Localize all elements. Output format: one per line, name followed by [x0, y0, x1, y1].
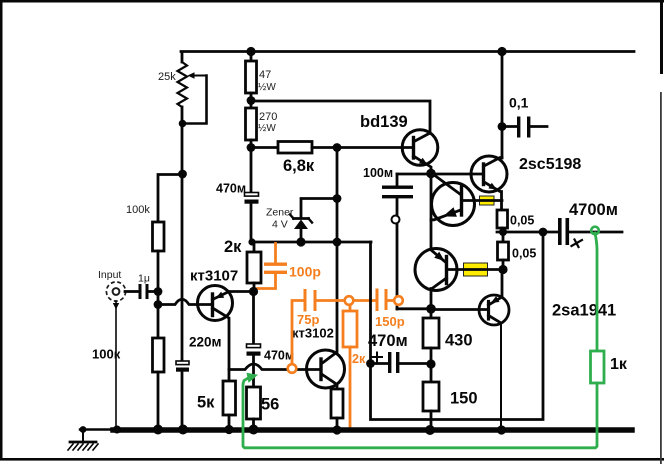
capacitor 470m emitter [247, 292, 295, 388]
svg-text:кт3102: кт3102 [292, 326, 334, 341]
wire green feedback return [243, 373, 597, 448]
node 5k ground [224, 425, 233, 434]
node 150 ground [425, 425, 435, 435]
node orange marker on 100m line [394, 296, 403, 305]
capacitor 100p (orange) [255, 244, 321, 291]
resistor 5k [197, 381, 236, 429]
svg-text:0,1: 0,1 [509, 95, 529, 111]
node 1u / 100k junction [154, 287, 163, 296]
wire collector branch x502 [501, 53, 504, 158]
svg-text:2sc5198: 2sc5198 [519, 156, 581, 173]
node top rail / 47 resistor [246, 47, 255, 56]
svg-text:2к: 2к [352, 352, 366, 366]
resistor 100k lower [92, 338, 164, 429]
svg-text:75p: 75p [297, 312, 319, 327]
wire junction to 100m line [397, 307, 431, 310]
wire ground bus [80, 428, 632, 431]
node kt3102 emitter ground [332, 425, 341, 434]
svg-text:6,8к: 6,8к [283, 157, 315, 175]
potentiometer 25k [158, 52, 207, 124]
wire bias chain vertical [336, 148, 339, 243]
wire top supply rail [181, 50, 634, 53]
svg-text:470м: 470м [216, 182, 246, 196]
svg-text:47: 47 [259, 69, 271, 81]
wire to bd139 collector [251, 101, 430, 141]
capacitor 470m upper [216, 148, 259, 242]
transistor kt3102 [292, 243, 345, 389]
svg-text:150: 150 [450, 390, 478, 408]
svg-text:½W: ½W [258, 123, 276, 134]
node 0,05 / 2sa emitter junction [498, 265, 507, 274]
wire x431 down to driver [430, 174, 433, 249]
capacitor 0,1 [502, 95, 547, 138]
node bias rail / kt3102 collector line [333, 238, 342, 247]
node pot wiper junction [179, 120, 187, 128]
wire base of kt3107 with hop [158, 299, 212, 304]
node 430 / 150 / cap junction [426, 359, 435, 368]
node 47 / 270 junction [247, 96, 256, 105]
node zener anode [296, 237, 305, 246]
svg-text:470м: 470м [368, 332, 408, 350]
resistor 150 [423, 382, 478, 430]
svg-text:кт3107: кт3107 [190, 268, 238, 285]
wire left bias line down [181, 124, 184, 361]
capacitor 1u [125, 273, 158, 300]
resistor 100k upper [126, 175, 182, 293]
svg-text:1μ: 1μ [138, 273, 150, 285]
node 220m ground [178, 425, 188, 435]
node 56 ground [249, 425, 259, 435]
resistor 1k (green) feedback [591, 233, 628, 383]
svg-text:4 V: 4 V [272, 219, 288, 231]
svg-text:0,05: 0,05 [512, 247, 536, 261]
node 100k ground [153, 425, 163, 435]
node 6.8k / bd139 base / bias chain [333, 143, 342, 152]
svg-text:100м: 100м [363, 166, 393, 180]
svg-text:270: 270 [259, 111, 277, 123]
transistor bias (rotated) [430, 172, 475, 226]
svg-text:1к: 1к [610, 356, 628, 373]
node ground stem [80, 426, 87, 433]
svg-text:430: 430 [445, 332, 473, 350]
transistor 2sa1941 [479, 270, 616, 326]
wire output rail [497, 231, 559, 234]
svg-text:100k: 100k [126, 204, 150, 216]
resistor kt3102 emitter [331, 389, 343, 430]
transistor driver pnp [415, 249, 502, 309]
node jack shield ground [113, 426, 121, 434]
svg-text:5к: 5к [197, 394, 215, 412]
wire junction to 2sa1941 base [431, 308, 488, 311]
capacitor 75p (orange) [292, 289, 345, 364]
node base branch junction [154, 292, 163, 338]
svg-text:Zener: Zener [266, 207, 294, 219]
node open circle on 100m line [392, 216, 400, 224]
resistor 6,8k [251, 142, 413, 176]
node top rail / output collector branch [497, 47, 506, 56]
svg-text:56: 56 [261, 396, 279, 414]
resistor 430 [423, 309, 473, 382]
svg-text:2к: 2к [224, 238, 242, 256]
resistor 0,05 lower [498, 232, 537, 269]
transistor 2sc5198 [471, 156, 581, 210]
svg-text:½W: ½W [258, 82, 276, 93]
yellow highlight 1 [480, 196, 495, 205]
resistor 270 1/2W [246, 108, 278, 148]
resistor 2k (orange) [343, 305, 366, 428]
zener diode 4V [266, 199, 337, 243]
svg-text:bd139: bd139 [360, 113, 408, 131]
node bias line / 100k branch [178, 170, 187, 179]
ground symbol [68, 430, 98, 451]
svg-text:100p: 100p [289, 264, 321, 280]
capacitor 100m [363, 166, 413, 309]
node 0,1 branch [498, 122, 507, 131]
transistor bd139 [360, 113, 438, 174]
wire kt3107 collector to kt3102 base with hop [229, 364, 321, 370]
node bias rail left [248, 238, 255, 245]
node orange marker on kt3102 base [288, 364, 297, 373]
node orange junction at 2k top [345, 296, 354, 305]
node 2sa collector ground [497, 425, 506, 434]
capacitor 4700m output [558, 201, 622, 247]
wire jack shield to ground [115, 301, 117, 429]
node 270 / 6.8k junction [247, 143, 256, 152]
svg-text:150p: 150p [375, 314, 405, 329]
resistor 2k [224, 238, 261, 292]
node output / 0,05 lower [499, 228, 507, 236]
node kt3107 emitter junction [249, 287, 258, 296]
capacitor 220m [176, 335, 222, 430]
wire bootstrap loop [371, 232, 544, 420]
svg-text:4700м: 4700м [569, 201, 618, 219]
yellow highlight 2 [464, 263, 488, 276]
capacitor 470m lower [368, 332, 431, 373]
node driver collector junction [426, 304, 436, 314]
node bootstrap / 470m cap [366, 359, 375, 368]
svg-text:470м: 470м [264, 349, 294, 363]
node zener top branch [333, 194, 342, 203]
capacitor 150p (orange) [354, 289, 405, 330]
svg-text:Input: Input [98, 269, 121, 281]
wire bias rail y242 [251, 241, 371, 244]
node green marker on output [591, 227, 599, 235]
svg-text:25k: 25k [158, 71, 176, 83]
node output / down leg [539, 228, 548, 237]
svg-text:0,05: 0,05 [510, 214, 534, 228]
resistor 0,05 upper [497, 210, 534, 232]
wire bias base to 0,05 junction [462, 199, 503, 202]
resistor 56 [247, 387, 280, 429]
wire driver rail y174 [397, 173, 483, 176]
wire 2sa1941 collector to ground [500, 323, 502, 430]
svg-text:220м: 220м [189, 335, 222, 350]
input jack [98, 269, 126, 310]
svg-text:2sa1941: 2sa1941 [552, 302, 616, 320]
transistor kt3107 [190, 268, 251, 382]
node bd139 emitter junction [426, 169, 436, 179]
resistor 47 1/2W [246, 52, 277, 108]
